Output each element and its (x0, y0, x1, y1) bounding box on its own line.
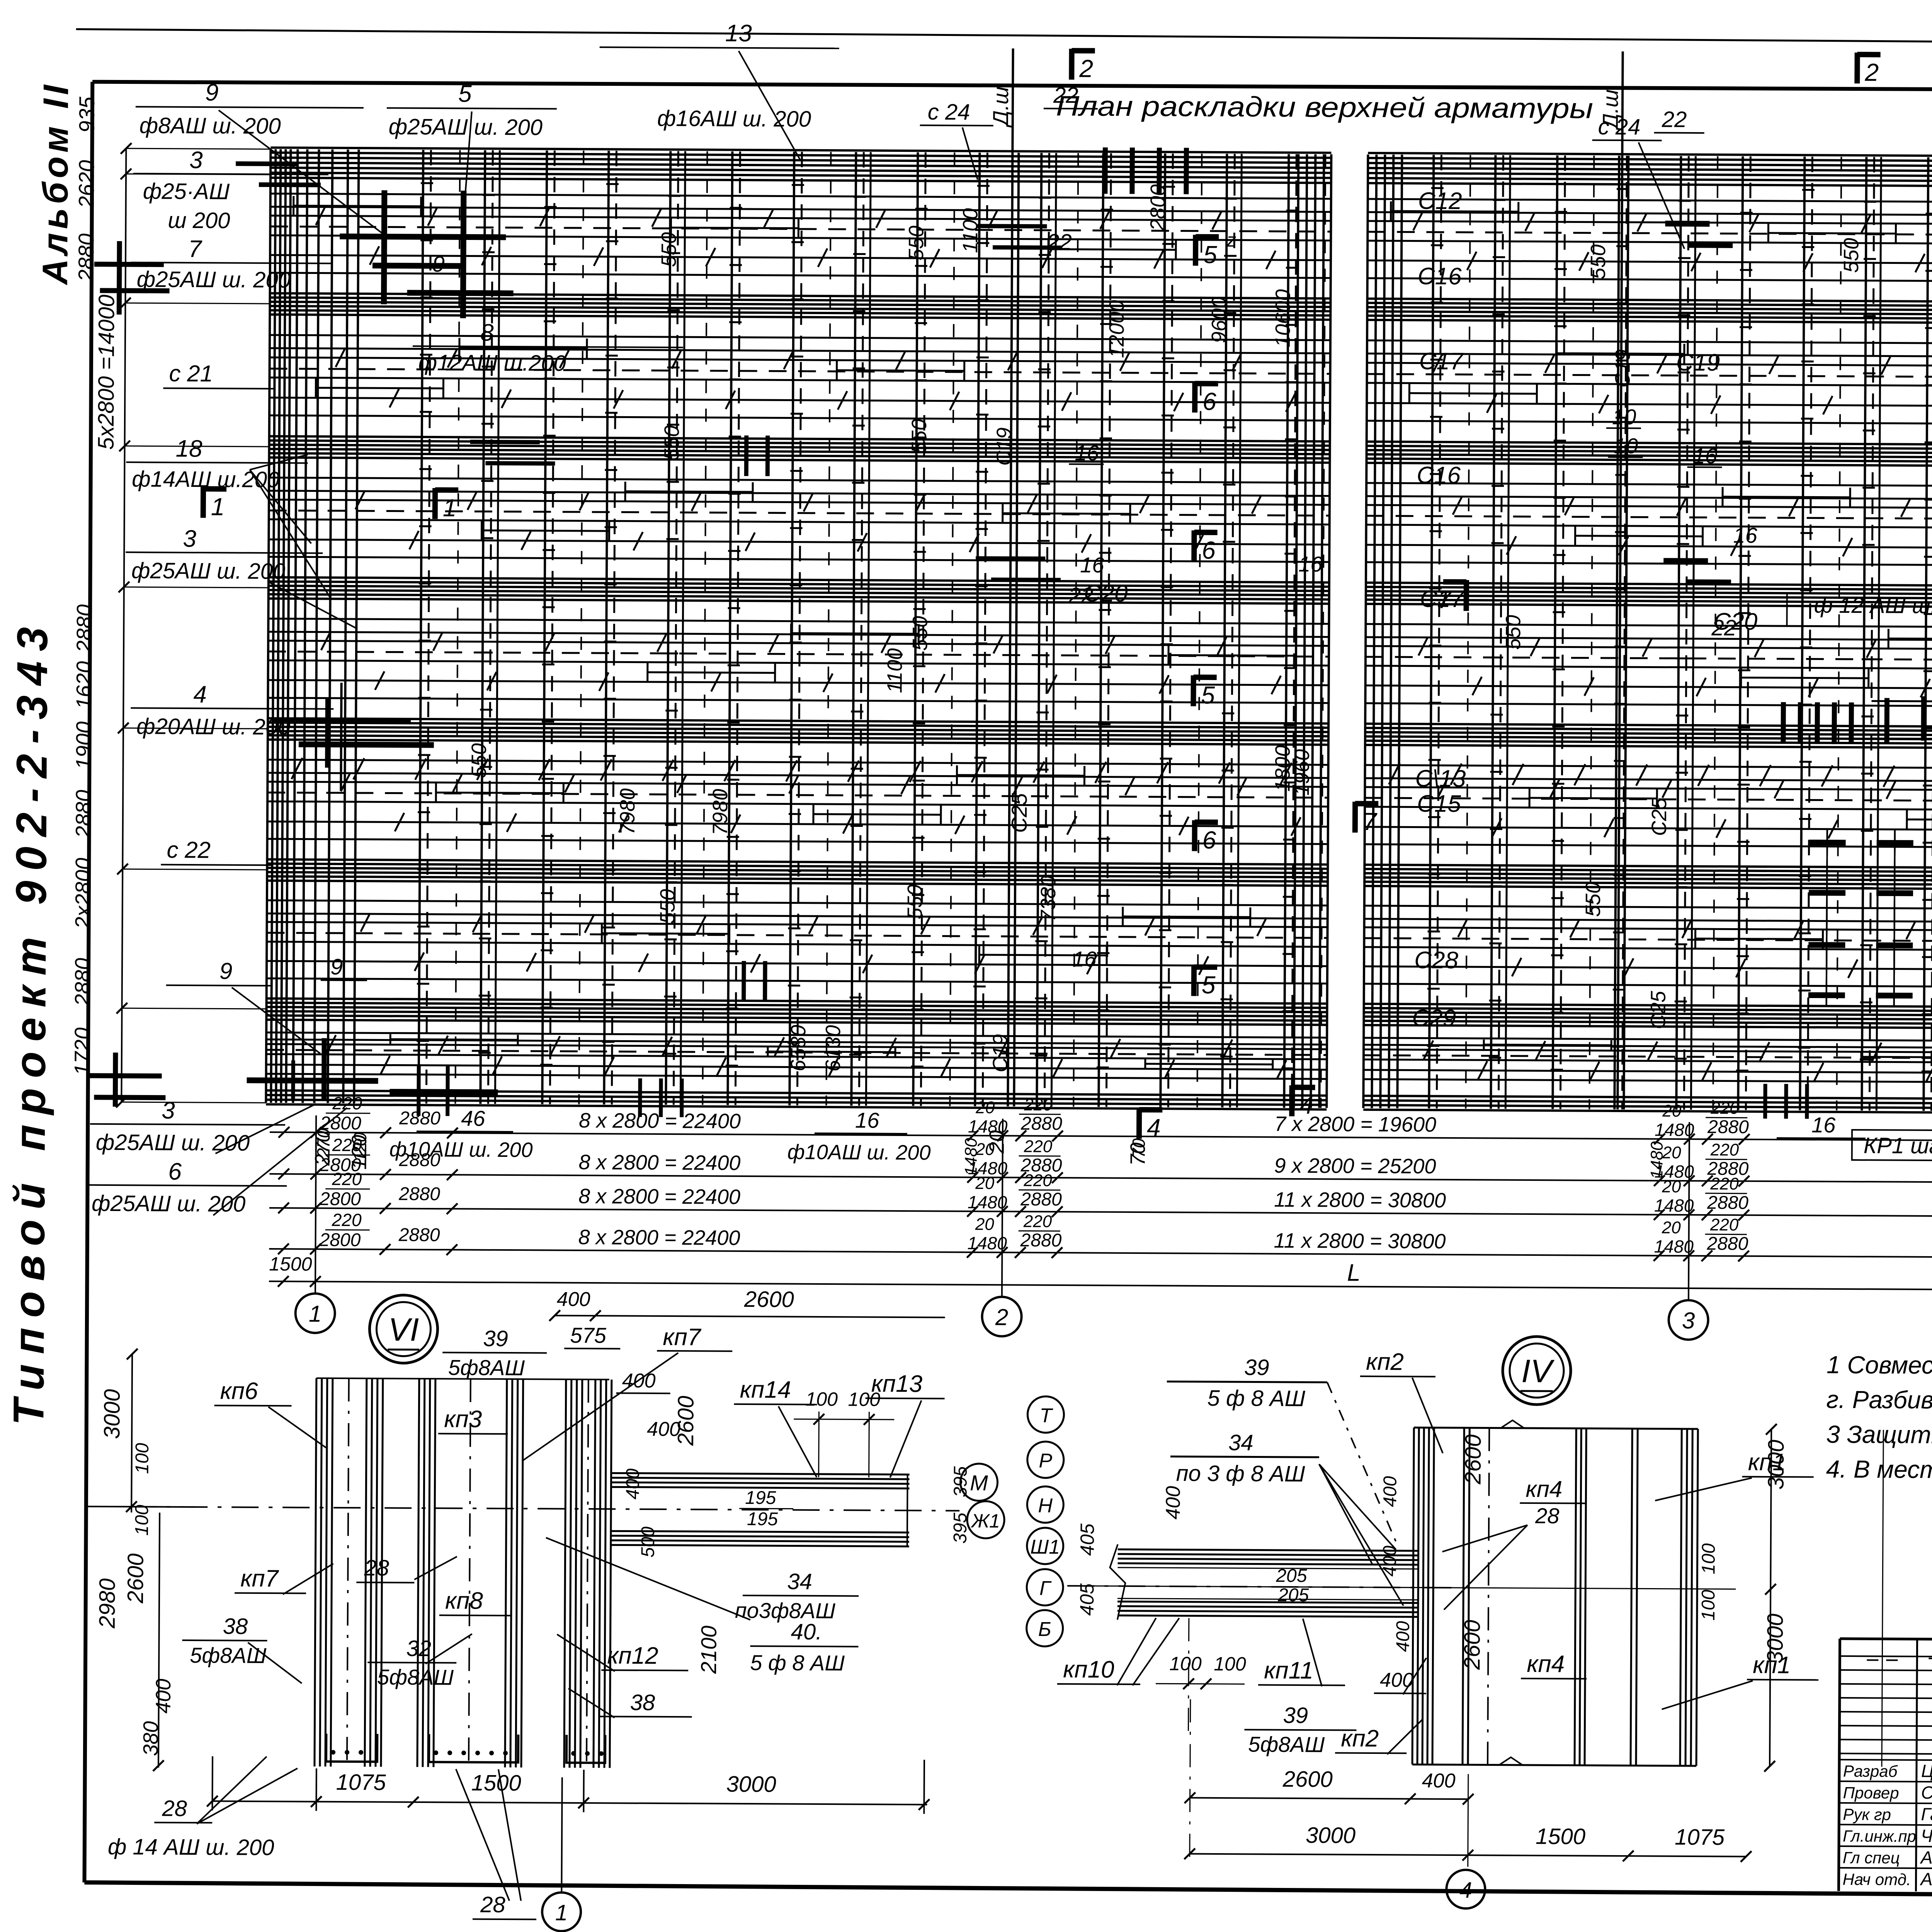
svg-text:1500: 1500 (1536, 1824, 1585, 1849)
svg-text:Гл.инж.пр: Гл.инж.пр (1843, 1827, 1916, 1845)
svg-text:C25: C25 (1648, 797, 1671, 836)
svg-text:9 x 2800 = 25200: 9 x 2800 = 25200 (1274, 1154, 1436, 1178)
svg-text:34: 34 (787, 1569, 812, 1594)
svg-text:Ж1: Ж1 (970, 1510, 1000, 1532)
svg-text:2980: 2980 (95, 1578, 120, 1629)
svg-text:5ф8АШ: 5ф8АШ (377, 1665, 454, 1689)
svg-text:ф25АШ ш. 200: ф25АШ ш. 200 (131, 558, 286, 584)
svg-text:C19: C19 (992, 427, 1015, 466)
svg-text:Разраб: Разраб (1843, 1762, 1898, 1781)
svg-text:ф25·АШ: ф25·АШ (143, 179, 230, 204)
svg-text:9: 9 (330, 954, 343, 980)
svg-text:575: 575 (570, 1323, 607, 1347)
svg-text:2600: 2600 (123, 1553, 148, 1604)
svg-text:400: 400 (1380, 1476, 1400, 1507)
svg-text:4: 4 (1147, 1114, 1161, 1141)
svg-text:220: 220 (332, 1093, 362, 1113)
svg-text:16: 16 (1693, 444, 1717, 468)
svg-text:2600: 2600 (673, 1396, 699, 1446)
svg-text:1: 1 (443, 494, 457, 522)
svg-text:8: 8 (480, 320, 494, 346)
svg-text:4. В местах приямков арматуру: 4. В местах приямков арматуру сеток обре… (1826, 1455, 1932, 1486)
svg-text:405: 405 (1077, 1524, 1098, 1556)
svg-text:1620: 1620 (71, 661, 96, 709)
svg-text:100: 100 (132, 1505, 152, 1536)
svg-text:220: 220 (1710, 1174, 1739, 1193)
svg-text:22: 22 (1068, 583, 1094, 608)
svg-text:C28: C28 (1414, 947, 1459, 974)
svg-text:ф8АШ ш. 200: ф8АШ ш. 200 (139, 113, 281, 139)
svg-text:550: 550 (660, 425, 683, 460)
svg-text:2: 2 (1079, 54, 1093, 82)
svg-text:8 x 2800 = 22400: 8 x 2800 = 22400 (578, 1151, 740, 1175)
svg-text:кп11: кп11 (1264, 1657, 1313, 1684)
svg-text:550: 550 (903, 884, 927, 919)
svg-text:1500/1500: 1500/1500 (1929, 843, 1932, 942)
svg-text:кп12: кп12 (607, 1642, 658, 1669)
svg-text:2: 2 (1864, 58, 1879, 86)
svg-text:1100: 1100 (883, 648, 907, 693)
svg-text:6: 6 (1202, 536, 1216, 564)
svg-text:ф20АШ ш. 200: ф20АШ ш. 200 (136, 714, 291, 740)
svg-text:9600: 9600 (1207, 297, 1231, 343)
svg-text:2600: 2600 (744, 1287, 794, 1312)
svg-text:L: L (1347, 1260, 1361, 1286)
svg-text:400: 400 (622, 1468, 643, 1500)
svg-text:2800: 2800 (319, 1230, 361, 1251)
svg-text:20: 20 (1662, 1177, 1681, 1196)
svg-text:10: 10 (1612, 405, 1636, 429)
svg-text:с 22: с 22 (167, 837, 211, 863)
svg-text:6: 6 (168, 1158, 182, 1185)
svg-text:1500: 1500 (269, 1253, 312, 1275)
svg-text:32: 32 (406, 1636, 431, 1661)
svg-text:22: 22 (1053, 83, 1078, 108)
svg-text:1720: 1720 (70, 1027, 95, 1076)
svg-text:7: 7 (1363, 808, 1378, 835)
svg-text:12000: 12000 (1105, 300, 1129, 358)
svg-text:5: 5 (458, 80, 472, 107)
svg-text:100: 100 (805, 1388, 838, 1410)
svg-text:кп7: кп7 (240, 1565, 279, 1592)
svg-text:ш 200: ш 200 (168, 208, 230, 233)
svg-text:100: 100 (1169, 1653, 1202, 1674)
svg-text:550: 550 (1582, 882, 1605, 917)
svg-text:C19: C19 (1611, 349, 1634, 388)
svg-text:2880: 2880 (71, 790, 96, 838)
svg-text:Цветкова: Цветкова (1921, 1761, 1932, 1781)
svg-text:кп6: кп6 (220, 1378, 259, 1404)
svg-text:IV: IV (1521, 1353, 1555, 1389)
svg-text:550: 550 (467, 743, 490, 778)
svg-text:6580: 6580 (787, 1025, 810, 1071)
svg-text:1960: 1960 (1290, 749, 1314, 796)
svg-text:КР1 шаг1500: КР1 шаг1500 (1864, 1133, 1932, 1159)
svg-text:1480: 1480 (1654, 1236, 1694, 1257)
svg-text:Г: Г (1039, 1577, 1052, 1600)
svg-text:28: 28 (480, 1892, 505, 1917)
svg-text:План раскладки верхней арматур: План раскладки верхней арматуры (1056, 90, 1593, 124)
svg-text:205: 205 (1276, 1566, 1307, 1586)
svg-text:5ф8АШ: 5ф8АШ (190, 1643, 267, 1668)
svg-text:400: 400 (557, 1288, 590, 1311)
svg-text:205: 205 (1277, 1585, 1309, 1605)
svg-text:3: 3 (1682, 1308, 1695, 1333)
svg-text:34: 34 (1228, 1430, 1253, 1455)
svg-text:2: 2 (995, 1304, 1009, 1330)
svg-text:70: 70 (1129, 1138, 1149, 1158)
svg-text:1075: 1075 (336, 1770, 386, 1795)
svg-text:1 Совместно с данным см. л.л: 1 Совместно с данным см. л.л. КЖ-17,29,2… (1827, 1351, 1932, 1382)
svg-text:5: 5 (1203, 241, 1217, 269)
svg-text:кп2: кп2 (1366, 1349, 1404, 1375)
svg-text:с 21: с 21 (169, 361, 213, 387)
Detail Iv (Bottom Middle) (1503, 1337, 1571, 1405)
svg-text:8 x 2800 = 22400: 8 x 2800 = 22400 (579, 1109, 741, 1133)
svg-text:М: М (970, 1471, 988, 1495)
svg-text:Нач отд.: Нач отд. (1842, 1870, 1911, 1889)
svg-text:5 ф 8 АШ: 5 ф 8 АШ (750, 1650, 845, 1675)
svg-text:20: 20 (1662, 1102, 1682, 1121)
svg-text:11 x 2800 = 30800: 11 x 2800 = 30800 (1274, 1188, 1446, 1212)
svg-text:1480: 1480 (1655, 1120, 1694, 1140)
Left Margin (121, 148, 126, 1102)
svg-text:C16: C16 (1417, 462, 1461, 489)
svg-text:2880: 2880 (72, 604, 97, 653)
svg-text:3: 3 (162, 1097, 175, 1124)
svg-text:Семенова: Семенова (1921, 1782, 1932, 1803)
svg-text:C17: C17 (1420, 586, 1465, 613)
svg-text:4: 4 (1459, 1878, 1472, 1903)
svg-text:2620: 2620 (74, 160, 99, 209)
svg-text:16: 16 (1298, 552, 1323, 576)
svg-text:1480: 1480 (1654, 1196, 1694, 1216)
svg-text:550: 550 (908, 616, 932, 651)
svg-text:400: 400 (1422, 1770, 1456, 1792)
svg-text:1100: 1100 (959, 208, 982, 253)
svg-text:1: 1 (211, 493, 225, 520)
svg-text:1900: 1900 (71, 721, 96, 770)
svg-text:9: 9 (205, 79, 219, 106)
svg-text:кп1: кп1 (1753, 1652, 1791, 1679)
svg-text:кп8: кп8 (445, 1587, 483, 1614)
svg-text:935: 935 (75, 96, 99, 133)
svg-text:ф25АШ ш. 200: ф25АШ ш. 200 (92, 1191, 246, 1217)
svg-text:Гл спец: Гл спец (1843, 1849, 1900, 1867)
svg-text:550: 550 (905, 226, 928, 260)
svg-text:550: 550 (1587, 245, 1610, 279)
svg-text:220: 220 (1710, 1140, 1739, 1159)
svg-text:405: 405 (1076, 1583, 1098, 1616)
svg-text:1480: 1480 (967, 1233, 1007, 1253)
svg-text:VI: VI (388, 1311, 419, 1348)
svg-text:Т: Т (1039, 1405, 1053, 1427)
svg-text:20: 20 (975, 1174, 995, 1193)
svg-text:13: 13 (725, 20, 752, 47)
svg-text:7 x 2800 = 19600: 7 x 2800 = 19600 (1274, 1112, 1436, 1136)
svg-text:кп4: кп4 (1526, 1476, 1562, 1502)
svg-text:2880: 2880 (1707, 1192, 1748, 1213)
svg-text:20: 20 (1662, 1218, 1681, 1237)
svg-text:2880: 2880 (70, 958, 95, 1007)
svg-text:120: 120 (350, 1132, 370, 1162)
svg-text:380: 380 (139, 1721, 162, 1756)
svg-text:Андрианов: Андрианов (1920, 1847, 1932, 1868)
svg-text:22: 22 (1662, 107, 1687, 132)
svg-text:5: 5 (1201, 681, 1215, 709)
svg-text:Гарбуз: Гарбуз (1921, 1804, 1932, 1825)
svg-text:2880: 2880 (1020, 1230, 1062, 1251)
svg-text:16: 16 (1072, 947, 1097, 971)
svg-text:кп4: кп4 (1527, 1651, 1565, 1677)
svg-text:400: 400 (152, 1679, 175, 1713)
svg-text:Д.ш: Д.ш (988, 87, 1013, 128)
svg-text:C29: C29 (1412, 1005, 1456, 1032)
svg-text:220: 220 (1710, 1215, 1739, 1234)
svg-text:1480: 1480 (968, 1192, 1007, 1213)
svg-text:2880: 2880 (1706, 1233, 1748, 1254)
svg-text:38: 38 (223, 1614, 248, 1639)
svg-text:Б: Б (1038, 1618, 1051, 1641)
svg-text:9: 9 (219, 958, 233, 984)
svg-text:Альбом II: Альбом II (36, 81, 76, 286)
Section Marks (1193, 235, 1198, 266)
svg-text:100: 100 (1698, 1590, 1719, 1621)
svg-text:Р: Р (1039, 1450, 1052, 1472)
svg-text:10: 10 (1614, 434, 1638, 458)
svg-text:ф25АШ ш. 200: ф25АШ ш. 200 (389, 114, 543, 140)
svg-text:220: 220 (1024, 1137, 1053, 1156)
svg-text:Рук гр: Рук гр (1843, 1805, 1891, 1824)
svg-text:2600: 2600 (1459, 1620, 1485, 1670)
svg-text:22: 22 (1046, 230, 1072, 255)
svg-text:39: 39 (1283, 1703, 1308, 1728)
svg-text:C17: C17 (1419, 348, 1464, 375)
svg-text:8 x 2800 = 22400: 8 x 2800 = 22400 (578, 1226, 740, 1250)
svg-text:500: 500 (638, 1526, 658, 1558)
svg-text:Чирков: Чирков (1921, 1826, 1932, 1846)
svg-text:по 3 ф 8 АШ: по 3 ф 8 АШ (1176, 1461, 1306, 1486)
svg-text:2800: 2800 (1146, 184, 1170, 231)
svg-text:550: 550 (1502, 615, 1525, 650)
svg-text:1480: 1480 (1647, 1141, 1666, 1179)
svg-text:8 x 2800 = 22400: 8 x 2800 = 22400 (578, 1185, 740, 1209)
svg-text:395: 395 (950, 1466, 971, 1497)
svg-text:270: 270 (313, 1128, 333, 1158)
svg-text:6: 6 (1202, 826, 1216, 854)
svg-text:195: 195 (747, 1509, 778, 1529)
svg-text:195: 195 (745, 1488, 776, 1508)
svg-text:2880: 2880 (74, 233, 99, 282)
svg-text:28: 28 (162, 1796, 187, 1821)
svg-text:220: 220 (332, 1210, 362, 1230)
svg-text:г. Разбивка сеток дона по: г. Разбивка сеток дона по осям стыков. (1826, 1386, 1932, 1416)
svg-text:2880: 2880 (1707, 1117, 1749, 1138)
svg-text:ф16АШ ш. 200: ф16АШ ш. 200 (657, 106, 811, 132)
svg-text:C15: C15 (1417, 791, 1461, 818)
svg-text:46: 46 (461, 1106, 485, 1130)
svg-text:5ф8АШ: 5ф8АШ (1248, 1732, 1325, 1757)
svg-text:2x2800: 2x2800 (71, 858, 95, 929)
svg-text:ф10АШ ш. 200: ф10АШ ш. 200 (787, 1141, 931, 1165)
svg-text:1: 1 (555, 1900, 568, 1925)
svg-text:1075: 1075 (1675, 1825, 1725, 1850)
svg-text:220: 220 (1023, 1171, 1052, 1190)
svg-text:кп7: кп7 (663, 1324, 702, 1350)
svg-text:3 Защитный слой бетона - 25: 3 Защитный слой бетона - 25 мм. (1826, 1420, 1932, 1450)
svg-text:220: 220 (1710, 1099, 1739, 1117)
svg-text:550: 550 (908, 419, 931, 454)
svg-text:3000: 3000 (726, 1772, 776, 1797)
svg-text:16: 16 (1080, 553, 1104, 577)
svg-text:38: 38 (630, 1690, 655, 1715)
svg-text:3000: 3000 (1764, 1440, 1789, 1490)
svg-text:5ф8АШ: 5ф8АШ (448, 1355, 525, 1380)
svg-text:2880: 2880 (1020, 1114, 1062, 1134)
svg-text:7980: 7980 (616, 788, 639, 835)
svg-text:16: 16 (1811, 1113, 1836, 1137)
svg-text:Провер: Провер (1843, 1784, 1899, 1802)
svg-text:550: 550 (1840, 238, 1863, 273)
svg-text:100: 100 (132, 1443, 153, 1474)
svg-text:3000: 3000 (99, 1389, 125, 1439)
svg-text:кп13: кп13 (871, 1371, 923, 1398)
svg-text:C12: C12 (1418, 188, 1462, 215)
svg-text:Типовой проект 902-2-343: Типовой проект 902-2-343 (4, 617, 56, 1425)
svg-text:кп2: кп2 (1341, 1725, 1379, 1752)
svg-text:16: 16 (855, 1108, 879, 1132)
svg-text:220: 220 (1023, 1212, 1052, 1231)
svg-text:6: 6 (1202, 388, 1216, 415)
svg-text:220: 220 (332, 1169, 362, 1189)
Title Block (1838, 1639, 1840, 1891)
svg-text:100: 100 (1214, 1653, 1246, 1675)
svg-text:C19: C19 (989, 1034, 1012, 1072)
svg-text:С25: С25 (1007, 793, 1032, 833)
Sheet Frame (76, 29, 1932, 47)
svg-text:2100: 2100 (696, 1626, 721, 1674)
svg-text:5: 5 (1202, 971, 1216, 999)
svg-text:10600: 10600 (1271, 289, 1295, 347)
svg-text:220: 220 (1024, 1095, 1053, 1114)
svg-text:6130: 6130 (821, 1025, 845, 1071)
svg-text:1480: 1480 (961, 1138, 980, 1176)
svg-text:395: 395 (950, 1512, 971, 1544)
svg-text:2880: 2880 (398, 1225, 440, 1246)
svg-text:20: 20 (975, 1098, 995, 1117)
svg-text:400: 400 (1379, 1546, 1400, 1577)
svg-text:1500: 1500 (471, 1770, 521, 1796)
svg-text:3: 3 (189, 147, 203, 173)
svg-text:1: 1 (309, 1301, 322, 1327)
svg-text:7: 7 (188, 236, 202, 262)
svg-text:2600: 2600 (1461, 1434, 1486, 1485)
svg-text:550: 550 (657, 232, 680, 267)
svg-text:40.: 40. (791, 1619, 822, 1645)
svg-text:22: 22 (1711, 615, 1736, 640)
svg-text:39: 39 (483, 1326, 508, 1351)
svg-text:16: 16 (1075, 440, 1099, 465)
svg-text:3000: 3000 (1306, 1823, 1355, 1848)
Bold Rebar Clusters (384, 190, 384, 304)
svg-text:11 x 2800 = 30800: 11 x 2800 = 30800 (1274, 1229, 1446, 1253)
svg-text:100: 100 (1698, 1543, 1719, 1575)
svg-text:39: 39 (1244, 1355, 1269, 1380)
svg-text:z: z (1226, 229, 1236, 251)
svg-text:7980: 7980 (709, 789, 732, 835)
svg-text:кп3: кп3 (444, 1406, 482, 1432)
svg-text:28: 28 (364, 1555, 389, 1580)
svg-text:ф25АШ ш. 200: ф25АШ ш. 200 (137, 267, 291, 293)
svg-text:кп14: кп14 (740, 1376, 791, 1403)
svg-text:кп10: кп10 (1063, 1656, 1114, 1683)
svg-text:1480: 1480 (968, 1116, 1008, 1137)
svg-text:5 ф 8 АШ: 5 ф 8 АШ (1207, 1386, 1305, 1411)
svg-text:с 24: с 24 (1598, 114, 1641, 140)
svg-text:2880: 2880 (399, 1108, 440, 1129)
Plan Grid (270, 148, 1331, 153)
svg-text:Альтшуллер: Альтшуллер (1919, 1869, 1932, 1889)
svg-text:400: 400 (1380, 1669, 1413, 1691)
svg-text:C\13: C\13 (1415, 765, 1466, 792)
svg-text:5x2800 =14000: 5x2800 =14000 (94, 294, 119, 450)
svg-text:400: 400 (1162, 1486, 1184, 1519)
svg-text:28: 28 (1535, 1503, 1560, 1528)
svg-text:C16: C16 (1418, 263, 1462, 290)
svg-text:16: 16 (1733, 523, 1757, 548)
svg-text:ф12АШ ш.200: ф12АШ ш.200 (418, 350, 566, 376)
svg-text:18: 18 (175, 435, 202, 462)
svg-text:400: 400 (1393, 1621, 1413, 1652)
svg-text:550: 550 (656, 889, 679, 924)
Dimension Table (270, 1132, 1932, 1143)
svg-text:C19: C19 (1676, 349, 1720, 376)
svg-text:7380: 7380 (1037, 876, 1060, 922)
svg-text:Ш1: Ш1 (1030, 1536, 1060, 1558)
svg-text:2600: 2600 (1282, 1767, 1333, 1792)
svg-text:3: 3 (183, 526, 196, 552)
svg-text:4: 4 (193, 681, 207, 708)
svg-text:с 24: с 24 (928, 99, 970, 125)
svg-text:ф10АШ ш. 200: ф10АШ ш. 200 (389, 1138, 533, 1162)
svg-text:20: 20 (975, 1215, 995, 1234)
svg-text:C25: C25 (1646, 990, 1670, 1029)
svg-text:2880: 2880 (1020, 1189, 1062, 1210)
svg-text:ф25АШ ш. 200: ф25АШ ш. 200 (96, 1130, 250, 1156)
svg-text:ф 14 АШ ш. 200: ф 14 АШ ш. 200 (108, 1834, 274, 1860)
svg-text:ф 12 АШ ш. 200: ф 12 АШ ш. 200 (1814, 593, 1932, 619)
svg-text:2880: 2880 (398, 1184, 440, 1205)
svg-text:9: 9 (432, 252, 445, 277)
Detail Vi (Bottom Left) (369, 1295, 438, 1363)
svg-text:Н: Н (1038, 1495, 1053, 1517)
svg-text:2800: 2800 (319, 1189, 361, 1210)
